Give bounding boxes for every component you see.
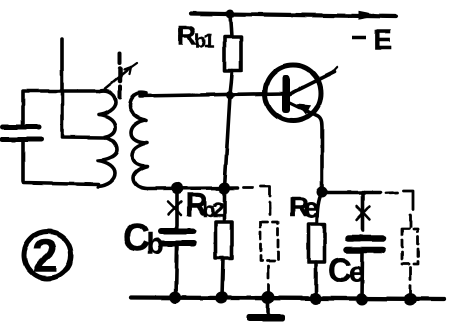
- svg-text:e: e: [303, 193, 319, 225]
- svg-text:2: 2: [33, 230, 59, 282]
- svg-text:E: E: [374, 24, 393, 55]
- svg-text:b: b: [147, 229, 165, 261]
- svg-text:b2: b2: [203, 199, 225, 222]
- svg-text:b1: b1: [195, 32, 215, 53]
- svg-text:e: e: [349, 257, 365, 288]
